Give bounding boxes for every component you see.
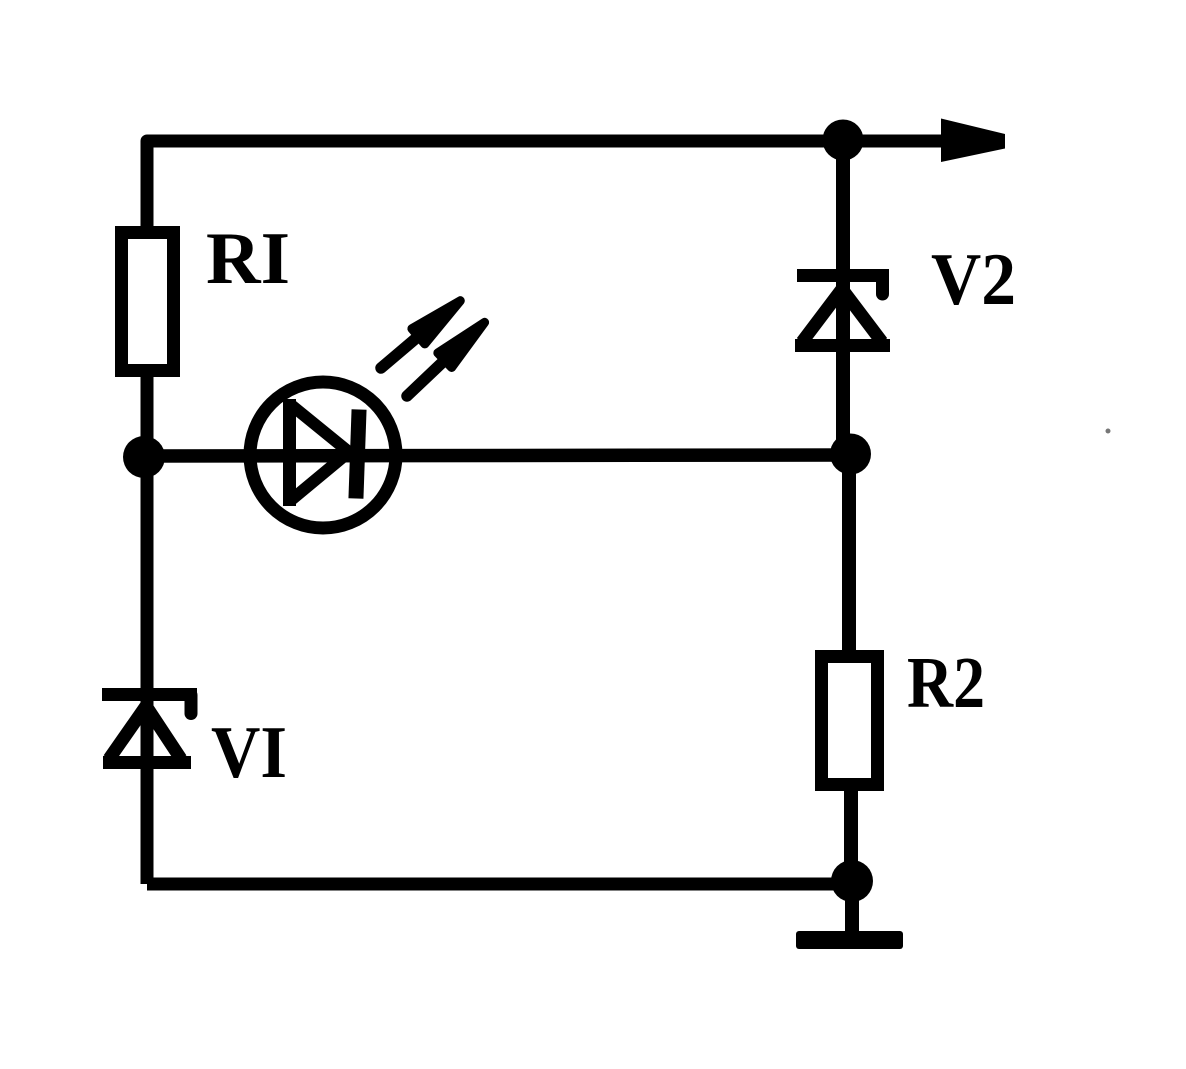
svg-text:RI: RI (206, 218, 290, 300)
node right junction dot (830, 434, 871, 475)
node left junction dot (123, 436, 165, 478)
speck artifact (1106, 429, 1111, 434)
svg-text:VI: VI (211, 712, 287, 794)
wire LED row (144, 455, 851, 456)
resistor R1 (122, 233, 174, 371)
svg-text:V2: V2 (931, 239, 1016, 321)
resistor R2 (822, 657, 878, 785)
diode V1 (102, 688, 197, 763)
LED light arrow 1 (375, 293, 467, 376)
output arrow head (941, 119, 1005, 163)
wire right rail upper (836, 141, 850, 450)
wire bottom rail (147, 878, 852, 891)
LED light arrow 2 (400, 315, 491, 403)
node bottom junction dot (831, 860, 873, 902)
wire left rail lower (141, 371, 154, 884)
wire top rail (147, 141, 941, 232)
LED D1 (250, 382, 396, 528)
ground (796, 881, 903, 949)
diode V2 (795, 269, 890, 346)
wire right rail lower (849, 454, 851, 881)
node top junction dot (823, 120, 864, 161)
svg-text:R2: R2 (907, 642, 985, 723)
